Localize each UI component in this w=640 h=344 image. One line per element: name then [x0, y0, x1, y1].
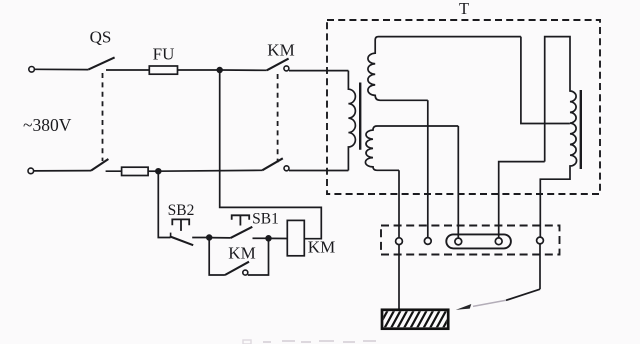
tap link (stadium) [446, 234, 511, 248]
wire [106, 170, 122, 172]
terminal L1 [29, 67, 35, 73]
fuse FU 2 [122, 167, 149, 175]
coil KM [287, 220, 304, 255]
transformer primary winding [348, 71, 355, 171]
switch QS pole 1 [88, 57, 114, 69]
wire [209, 237, 230, 239]
wire terminal 1 to electrode [398, 245, 400, 310]
wire branch from junction 2 down to SB2 [158, 171, 170, 237]
wire [269, 237, 288, 239]
contactor contact KM pole 2 [262, 158, 283, 170]
node junction 1 [217, 68, 222, 73]
wire [178, 69, 220, 71]
wire aux branch down [209, 238, 225, 276]
svg-text:~380V: ~380V [23, 115, 72, 135]
svg-text:SB2: SB2 [168, 202, 195, 219]
transformer secondary winding upper [368, 37, 521, 101]
terminal L2 [28, 168, 34, 174]
wire [148, 170, 158, 172]
transformer enclosure T (dashed box) [327, 20, 600, 194]
node junction 4 [266, 236, 271, 241]
transformer winding right (tapped) [540, 37, 576, 238]
transformer secondary winding lower [365, 126, 458, 170]
tap terminal 2 [424, 238, 431, 245]
tap selector board (dashed box) [381, 226, 560, 255]
svg-text:KM: KM [228, 244, 255, 263]
wire [289, 70, 348, 72]
caption remnant (cropped) [243, 340, 376, 344]
transformer core bar 2 [580, 90, 582, 169]
wire drop to tap terminal 1 [398, 170, 400, 237]
switch QS pole 2 [91, 159, 108, 171]
pushbutton SB2 (NC) [170, 233, 172, 238]
contact KM auxiliary (self-hold) [225, 262, 249, 275]
wire drop to tap terminal 3 [457, 126, 459, 238]
wire [220, 69, 267, 71]
wire tap chain to right winding [521, 37, 570, 124]
wire [106, 69, 149, 71]
tap terminal 5 [537, 237, 544, 244]
wire [289, 170, 348, 172]
pushbutton SB1 (NO) [231, 227, 253, 238]
svg-text:KM: KM [308, 238, 335, 257]
wire [248, 238, 269, 275]
wire [253, 237, 269, 239]
wire control branch down from junction 1 [220, 70, 322, 239]
tap terminal 1 [396, 238, 403, 245]
wire drop to tap terminal 4 [499, 162, 545, 238]
KM gang link (dashed) [277, 74, 279, 163]
contactor contact KM pole 1 [267, 59, 289, 71]
pointer arrowhead [456, 304, 472, 310]
node junction 2 [156, 169, 161, 174]
svg-text:T: T [459, 0, 469, 18]
wire [34, 68, 88, 70]
svg-text:KM: KM [267, 41, 294, 60]
QS gang link (dashed) [102, 73, 104, 161]
wire drop to tap terminal 2 [427, 100, 429, 237]
wire terminal 5 down [539, 244, 541, 289]
pointer shaft [506, 289, 540, 300]
wire [192, 237, 209, 239]
tap terminal 3 [455, 238, 462, 245]
svg-text:FU: FU [153, 45, 175, 64]
transformer core bar 1 [359, 83, 361, 150]
wire [34, 170, 91, 172]
svg-text:QS: QS [90, 28, 112, 47]
fuse FU 1 [149, 66, 177, 74]
svg-text:SB1: SB1 [252, 210, 279, 227]
electrode / workpiece (hatched) [377, 308, 454, 330]
wire [158, 169, 262, 172]
node junction 3 [207, 235, 212, 240]
tap terminal 4 [495, 238, 502, 245]
